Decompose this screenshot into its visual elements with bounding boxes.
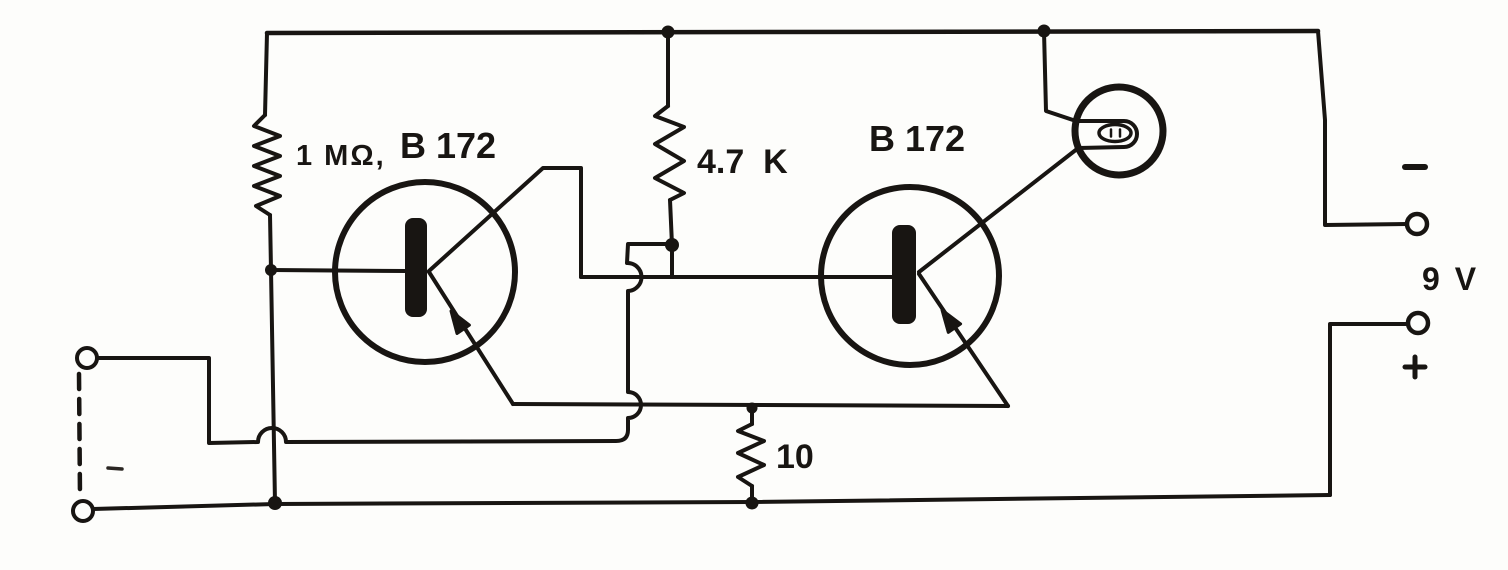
- transistor Q2 base bar: [892, 225, 916, 324]
- svg-text:9 V: 9 V: [1422, 261, 1479, 297]
- svg-text:4.7 K: 4.7 K: [697, 143, 788, 181]
- wire Q1/Q2 emitter line: [513, 404, 1008, 406]
- transistor Q1 base bar: [405, 218, 427, 317]
- wire battery plus to bottom rail: [1330, 324, 1408, 495]
- node bottom rail junction dot for R3: [746, 497, 759, 510]
- transistor Q1 circle: [335, 182, 515, 362]
- node B junction dot R2 bottom: [665, 238, 679, 252]
- dashed link between touch contacts: [79, 374, 80, 497]
- wire touch input from node B down to input line (hops over base and emitter wires): [97, 244, 672, 443]
- wire bottom rail: [93, 495, 1330, 509]
- transistor Q2 emitter arrowhead: [942, 310, 961, 332]
- transistor Q2 emitter lead: [919, 274, 1008, 406]
- wire from node A down to bottom rail: [271, 270, 275, 503]
- wire top rail down to battery minus terminal: [1318, 31, 1407, 225]
- transistor Q1 emitter arrowhead: [451, 311, 469, 334]
- transistor Q2 collector lead to lamp: [919, 149, 1077, 272]
- node emitter junction dot top of R3: [747, 403, 758, 414]
- svg-text:B 172: B 172: [869, 118, 965, 159]
- transistor Q2 circle: [821, 187, 999, 365]
- resistor R3 10 ohm: [738, 408, 764, 503]
- node top rail junction dot for R2: [662, 26, 675, 39]
- lamp filament loop: [1076, 121, 1137, 148]
- lamp filament inner marks: [1111, 130, 1120, 137]
- node A junction dot at R1 bottom / Q1 base: [265, 264, 277, 276]
- label plus sign: [1405, 357, 1425, 377]
- svg-text:10: 10: [776, 438, 814, 476]
- wire lamp feed: [1044, 31, 1076, 121]
- terminal upper touch contact: [77, 348, 97, 368]
- resistor R2 4.7K (vertical, middle): [655, 32, 684, 245]
- wire top supply rail: [267, 31, 1318, 33]
- svg-text:1 MΩ,: 1 MΩ,: [296, 140, 386, 172]
- node top rail junction dot for lamp: [1038, 25, 1051, 38]
- lamp LP1 bulb circle: [1075, 87, 1163, 175]
- terminal battery plus: [1408, 313, 1428, 333]
- node bottom rail junction dot left vertical: [268, 496, 282, 510]
- terminal battery minus: [1407, 214, 1427, 234]
- transistor Q1 emitter lead: [429, 272, 513, 404]
- svg-text:B 172: B 172: [400, 125, 496, 166]
- wire Q1 collector to Q2 base: [581, 275, 894, 279]
- wire Q1 base lead: [271, 270, 406, 271]
- label minus sign: [1405, 164, 1425, 170]
- small minus mark: [108, 468, 122, 469]
- lamp filament ellipse: [1099, 125, 1131, 142]
- wire node B stub down to base wire: [670, 245, 674, 277]
- transistor Q1 collector lead: [429, 168, 581, 277]
- resistor R1 1 Mohm (vertical, left): [254, 33, 280, 270]
- terminal lower touch contact: [73, 501, 93, 521]
